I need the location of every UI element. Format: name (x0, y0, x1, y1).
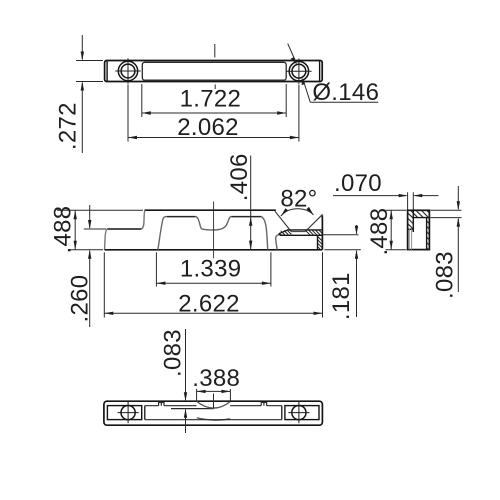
svg-text:.406: .406 (226, 153, 253, 201)
bottom view right box (285, 406, 319, 420)
top view left hole (118, 61, 137, 80)
svg-text:.070: .070 (334, 170, 382, 197)
front view left edge (105, 229, 108, 250)
dimension .388 (197, 389, 231, 401)
svg-text:82°: 82° (280, 186, 317, 213)
side view hatch top bar (413, 210, 429, 217)
bottom view left hole crosshair (118, 402, 139, 423)
svg-text:2.062: 2.062 (177, 114, 239, 141)
lip right slant line (305, 214, 322, 231)
lip hatch right (306, 230, 322, 235)
svg-text:1.339: 1.339 (180, 256, 242, 283)
side view hatch right wall (427, 218, 430, 250)
svg-text:2.622: 2.622 (178, 290, 240, 317)
top view outer plate (105, 61, 323, 82)
bottom view right double line (281, 406, 283, 420)
bottom view inner top line right (230, 405, 282, 407)
svg-text:.488: .488 (50, 206, 77, 254)
bottom view lower arch (197, 418, 230, 420)
svg-text:.272: .272 (55, 102, 82, 150)
side view top bar bottom edge (413, 217, 429, 219)
front view back rail top edge (145, 209, 276, 211)
lip leg top edge (287, 229, 322, 231)
dimension .083 bottom (185, 329, 187, 433)
lip leg bottom edge (280, 234, 323, 236)
leader diameter .146 (288, 44, 379, 103)
lip slot floor (291, 231, 305, 233)
top view right end inner line (319, 61, 321, 82)
dimension .070 (333, 192, 439, 209)
bump 2 right ramp (261, 217, 268, 250)
svg-text:.181: .181 (328, 272, 355, 320)
front view left flange top edge (107, 228, 141, 230)
bottom view left box (107, 406, 141, 420)
side view right wall inner edge (426, 218, 428, 250)
bottom view pocket arch (197, 401, 231, 408)
bottom view left hole (121, 406, 135, 420)
dimension .406 (250, 156, 252, 250)
svg-text:.260: .260 (66, 275, 93, 323)
dimension .181 (321, 225, 361, 317)
bump 1 right ramp and saddle (195, 217, 231, 230)
bottom view inner bottom line (145, 419, 282, 421)
svg-text:.488: .488 (366, 208, 393, 256)
top view right hole (289, 61, 308, 80)
dimension .272 (76, 35, 103, 153)
front view bottom edge (105, 249, 323, 251)
bump 1 top edge (167, 216, 196, 218)
dimension 1.339 (156, 252, 271, 286)
bottom view right hole (292, 406, 306, 420)
lip hatch left (281, 230, 292, 235)
bottom view center tick (213, 394, 215, 409)
bottom view pocket line (171, 408, 214, 410)
top view raised strip (142, 62, 286, 80)
lip vertical leg inner edge (317, 235, 319, 250)
lip vertical leg hatch (318, 237, 322, 250)
dimension 2.622 (104, 252, 322, 317)
front view step curve (141, 210, 145, 229)
side view outline (408, 210, 430, 249)
lip nose (left wedge end) (279, 230, 288, 235)
bump 2 top edge (231, 216, 261, 218)
dimension .488 left (57, 210, 143, 250)
svg-text:1.722: 1.722 (180, 86, 242, 113)
top view left end inner line (106, 61, 108, 82)
dimension .260 (84, 205, 106, 327)
bottom view inner top line left (145, 405, 197, 407)
dimension 1.722 (142, 84, 286, 117)
top view right hole crosshair (286, 59, 311, 84)
dimension .083 right (430, 186, 461, 292)
bottom view right hole crosshair (288, 402, 309, 423)
svg-text:.388: .388 (192, 365, 240, 392)
lip left slant line (275, 211, 291, 231)
bottom view left notch (159, 402, 164, 405)
svg-text:.083: .083 (159, 329, 186, 377)
top view left hole crosshair (115, 58, 140, 83)
side view left wall bottom (408, 228, 414, 230)
part right edge (321, 215, 323, 249)
front view centerline (213, 202, 215, 259)
top view center tick (214, 44, 216, 58)
bump 1 left ramp (158, 217, 167, 250)
side view hatch left wall (408, 210, 414, 229)
side view tangent lines (409, 229, 411, 249)
side view left wall inner edge (412, 210, 414, 232)
svg-text:Ø.146: Ø.146 (312, 79, 379, 106)
dimension 82 degrees arc (281, 209, 314, 216)
top view lower center tick (214, 85, 216, 90)
bottom view outer plate (104, 401, 323, 425)
dimension 2.062 (128, 85, 299, 142)
dimension .488 right (386, 210, 407, 249)
svg-text:.083: .083 (432, 251, 459, 299)
bottom view left double line (144, 406, 146, 420)
bottom view right notch (261, 402, 266, 405)
pocket web edge under lip (276, 234, 281, 249)
